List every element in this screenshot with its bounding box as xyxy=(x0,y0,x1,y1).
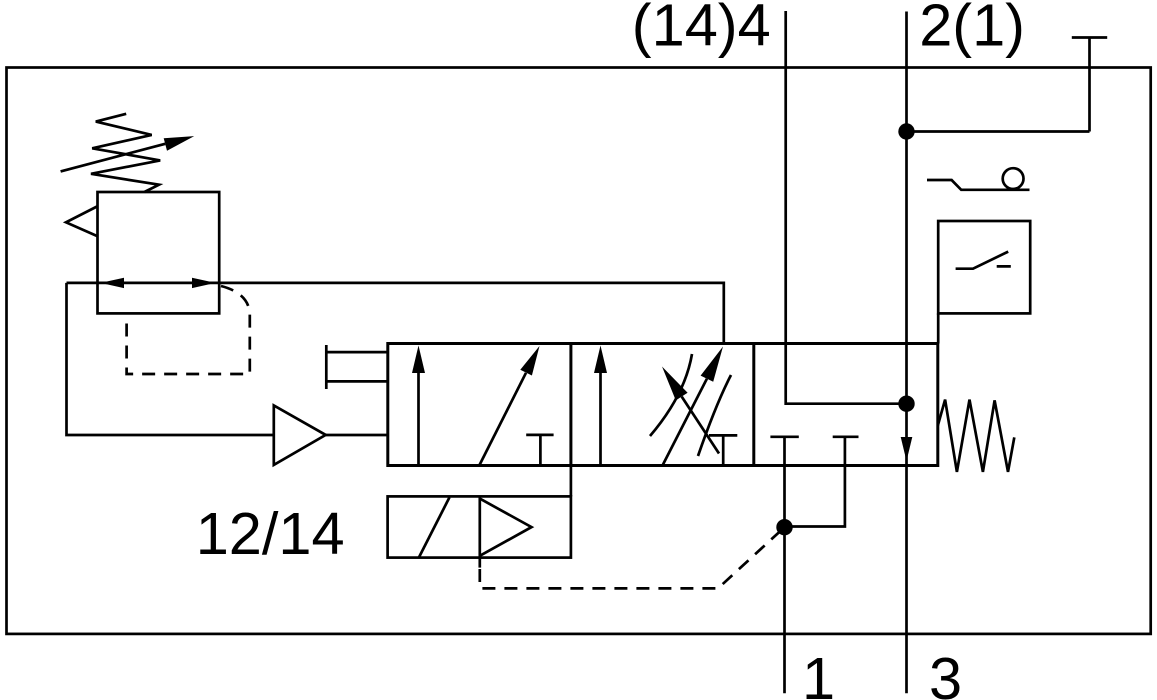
left position blocked port xyxy=(526,435,553,465)
throttle arc right xyxy=(698,375,731,456)
svg-text:1: 1 xyxy=(802,645,835,700)
switch actuator symbol xyxy=(927,168,1030,190)
valve position divider right xyxy=(752,344,755,466)
wire plugged port to node xyxy=(907,130,1090,133)
enclosure boundary xyxy=(7,68,1151,634)
pilot air triangle xyxy=(274,405,326,465)
wire port 1 line xyxy=(783,466,786,694)
valve body outline xyxy=(388,344,938,466)
regulator flow line xyxy=(67,283,724,344)
wire pilot triangle to valve xyxy=(326,434,388,437)
throttle arc left xyxy=(650,354,692,436)
svg-text:2(1): 2(1) xyxy=(919,0,1025,59)
right position blocked port 2 xyxy=(833,437,859,465)
middle position blocked port xyxy=(709,435,737,465)
svg-text:3: 3 xyxy=(929,645,962,700)
right position exhaust arrow down xyxy=(901,437,913,461)
middle position flow arrow up xyxy=(594,346,607,466)
regulator adjustment arrow xyxy=(61,136,195,171)
throttle arrow up-left xyxy=(662,367,719,454)
left position diagonal flow arrow xyxy=(480,346,540,465)
junction node at port 2 branch xyxy=(898,123,914,139)
pressure switch contact xyxy=(956,252,1011,269)
regulator dashed feedback line xyxy=(127,286,250,374)
wire solenoid to valve xyxy=(570,466,573,497)
throttle arrow up-right xyxy=(663,347,723,465)
svg-text:12/14: 12/14 xyxy=(196,500,345,567)
wire pressure switch to valve xyxy=(937,313,940,343)
regulator flow arrowhead left xyxy=(101,278,125,288)
regulator box xyxy=(98,192,220,313)
solenoid box xyxy=(388,496,571,557)
left position flow arrow up xyxy=(412,346,425,466)
junction node inside right position xyxy=(898,396,914,412)
regulator flow arrowhead right xyxy=(192,278,216,288)
wire pilot supply left xyxy=(67,283,274,435)
pressure switch box xyxy=(938,221,1030,313)
wire port 4 line xyxy=(786,11,907,404)
solenoid pilot triangle xyxy=(480,499,532,556)
valve position divider left xyxy=(569,344,572,466)
wire port 1 branch xyxy=(785,466,845,527)
regulator relief triangle xyxy=(66,207,97,237)
dashed pilot line solenoid to port 1 node xyxy=(480,527,785,588)
wire port 3 line xyxy=(905,404,908,694)
solenoid divider xyxy=(478,496,481,567)
plugged port symbol top right xyxy=(1072,38,1107,132)
regulator adjustment spring xyxy=(91,114,160,192)
return spring xyxy=(938,400,1015,472)
solenoid coil diagonal xyxy=(419,497,450,557)
junction node on port 1 xyxy=(776,519,792,535)
wire port 2 line xyxy=(905,12,908,404)
svg-text:(14)4: (14)4 xyxy=(632,0,771,59)
manual override button xyxy=(326,345,388,389)
right position blocked port 1 xyxy=(770,437,798,465)
